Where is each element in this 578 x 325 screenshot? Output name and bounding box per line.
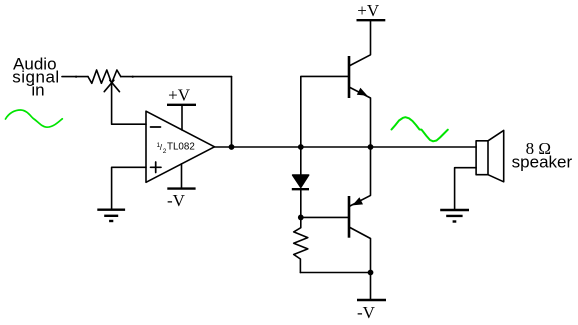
node: -V junction bbox=[368, 270, 374, 276]
op-amp label 1/2 TL082 bbox=[157, 142, 195, 155]
transistor Q2 emitter arrow bbox=[352, 197, 363, 205]
potentiometer wiper arrow bbox=[104, 80, 119, 92]
svg-text:-V: -V bbox=[357, 303, 376, 322]
op-amp -V rail bar bbox=[167, 187, 195, 189]
node: push-pull output junction bbox=[368, 144, 374, 150]
op-amp U1 triangle bbox=[146, 111, 215, 182]
node: diode/resistor/base junction bbox=[298, 215, 304, 221]
svg-text:speaker: speaker bbox=[512, 152, 573, 171]
node: driver branch junction bbox=[298, 144, 304, 150]
wire: diode to lower junction bbox=[300, 189, 302, 217]
node: feedback junction bbox=[229, 144, 235, 150]
transistor Q1 emitter bbox=[349, 87, 371, 147]
wire: bottom horizontal to -V junction bbox=[300, 272, 370, 274]
-V rail (bottom) bar bbox=[357, 299, 386, 301]
op-amp -V rail stub bbox=[181, 164, 183, 189]
transistor Q1 collector bbox=[349, 20, 371, 66]
wire: junction down to diode bbox=[300, 147, 302, 175]
diode D1 cathode bar bbox=[292, 188, 309, 190]
pin dot on feedback wire bbox=[132, 76, 134, 78]
ground (op-amp noninverting input) bbox=[97, 208, 125, 210]
transistor Q1 (NPN) bar bbox=[348, 56, 351, 98]
op-amp inverting input symbol - bbox=[151, 126, 161, 128]
diode D1 (filled triangle) bbox=[293, 175, 309, 187]
transistor Q2 emitter bbox=[349, 147, 371, 207]
+V rail (top) bar bbox=[357, 19, 386, 21]
input sine wave (green) bbox=[6, 110, 63, 127]
svg-text:+V: +V bbox=[168, 86, 191, 105]
wire: junction down to -V rail bbox=[370, 273, 372, 301]
svg-text:-V: -V bbox=[167, 191, 186, 210]
op-amp +V rail bar bbox=[167, 104, 196, 106]
transistor Q1 emitter arrow bbox=[357, 88, 368, 96]
wire: speaker bottom terminal to ground bbox=[455, 168, 477, 210]
wire: audio input to potentiometer bbox=[62, 76, 88, 78]
label "Audio signal in" bbox=[12, 55, 59, 100]
resistor R2 (vertical zigzag) bbox=[294, 217, 308, 272]
op-amp noninverting input symbol + bbox=[151, 162, 162, 173]
svg-text:TL082: TL082 bbox=[167, 142, 195, 153]
wire: feedback top horizontal bbox=[121, 76, 232, 78]
label "8 Ω speaker" bbox=[512, 139, 573, 172]
pin dot on input wire bbox=[75, 76, 77, 78]
wire: feedback vertical bbox=[231, 77, 233, 147]
ground (speaker) bbox=[440, 209, 469, 211]
wire: junction to PNP base bbox=[301, 216, 348, 218]
wire: wiper shaft down to inverting input bbox=[112, 85, 146, 125]
output sine wave (green) bbox=[392, 117, 448, 141]
op-amp +V rail stub bbox=[181, 105, 183, 130]
potentiometer R1 (zigzag body) bbox=[88, 70, 121, 83]
svg-text:+V: +V bbox=[357, 1, 380, 20]
wire: noninverting input to ground bbox=[112, 167, 146, 209]
wire: main output rail bbox=[215, 146, 477, 148]
svg-text:in: in bbox=[31, 81, 44, 100]
speaker frame (rectangle) bbox=[476, 141, 488, 175]
speaker cone bbox=[488, 130, 504, 181]
transistor Q2 (PNP) bar bbox=[348, 196, 351, 238]
wire: branch up to NPN base bbox=[301, 76, 348, 147]
transistor Q2 collector bbox=[349, 227, 371, 273]
